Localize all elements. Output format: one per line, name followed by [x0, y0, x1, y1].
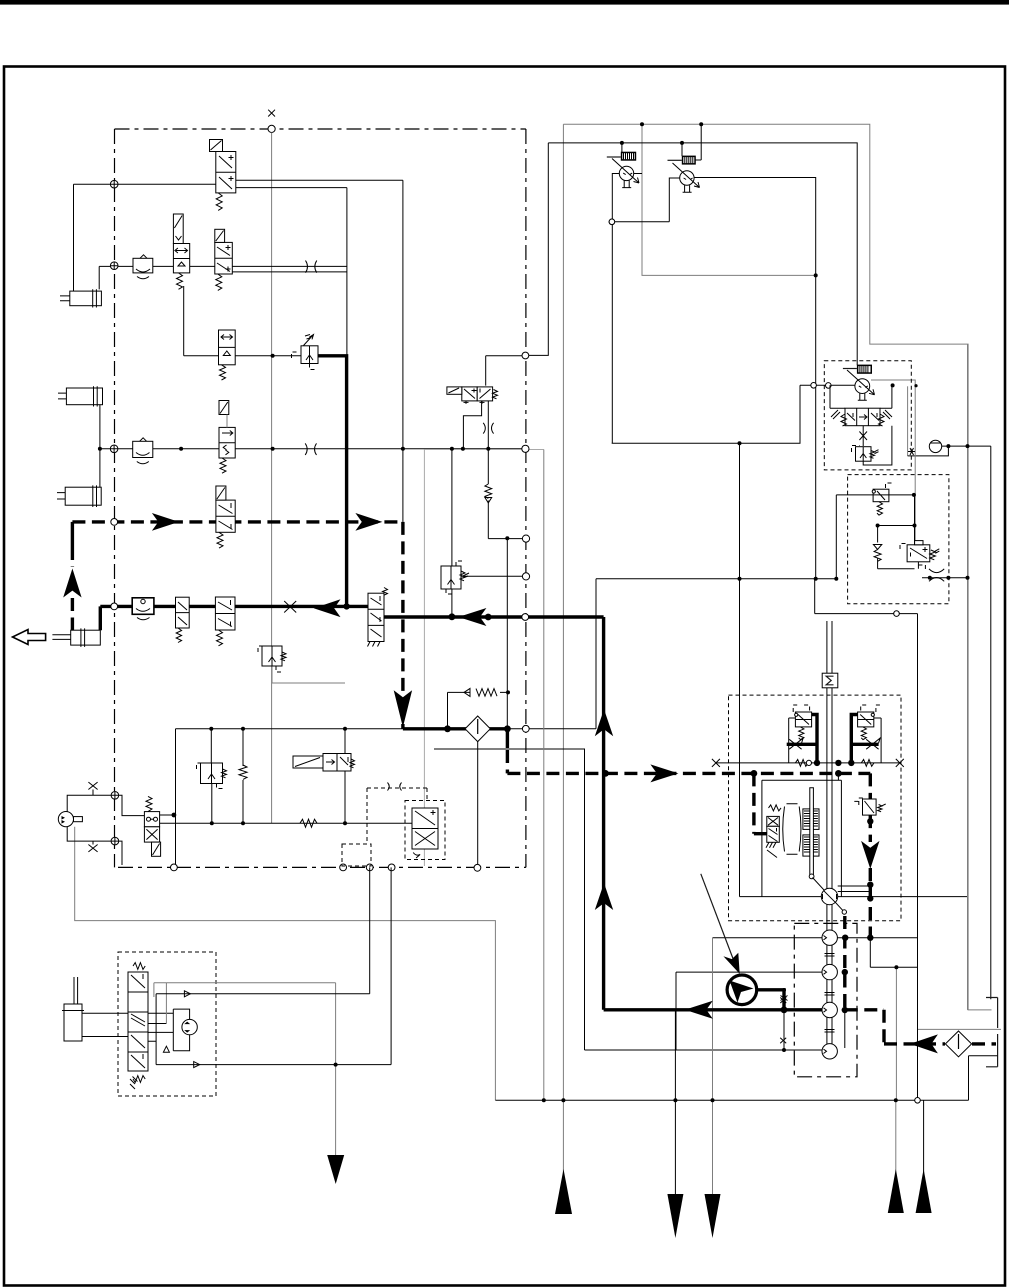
cylinder 4 (brake) [52, 628, 100, 647]
wire: riser x347 [346, 188, 348, 356]
relief module left [789, 705, 811, 766]
arrow up suction 2 [595, 883, 613, 910]
cylinder 3 [57, 485, 101, 507]
wire: sigma shaft (double) [827, 621, 832, 1044]
wire: check to filter riser [506, 538, 508, 729]
valve row6 A [176, 597, 190, 642]
thick main pressure line row6 [100, 606, 603, 630]
wire: compensator block links [836, 495, 967, 579]
wire gray: long vertical from pilot line [271, 133, 273, 824]
feedback pump circle [173, 1009, 197, 1051]
wire: gauge drop to tank bracket [990, 446, 992, 999]
wire gray: tailgate line y1029 [918, 1028, 1001, 1030]
shaft couplings [825, 954, 835, 1033]
ring pump1 port [609, 219, 615, 225]
wire: ver valve to ring [461, 575, 522, 577]
pressure reducing valve row3 [292, 335, 319, 370]
arrow up x895 [888, 1100, 904, 1213]
wire: right drain y613.6 [815, 579, 918, 1101]
wire: cyl2-cyl3 riser [99, 405, 101, 488]
junction plus-circles on pilot boundary [110, 180, 118, 845]
flow control valve row2 [173, 214, 189, 289]
block output wires [166, 982, 335, 984]
valve V2 row2 [215, 229, 233, 290]
wire: cyl1 riser [74, 184, 100, 291]
relief valve (y763 small) [197, 763, 227, 789]
pressure gauge [929, 440, 941, 452]
thick-dashed stack bus x844.8 [843, 916, 846, 1010]
wire: bottom tank stub [969, 1055, 998, 1057]
wire: pump stack port lines [676, 938, 918, 1050]
tank port ticks [986, 998, 998, 1067]
pilot pump 1 [607, 152, 639, 188]
check box row2 [133, 255, 153, 279]
restrictor row4 [305, 443, 316, 455]
regulator dashed box [824, 361, 911, 470]
bevel gear joint [821, 888, 837, 904]
hydraulic motor (left) [58, 782, 144, 865]
bowtie restrictor row6 [284, 601, 296, 613]
wire: filter drain leg [477, 741, 479, 864]
relief pair thin loops [789, 718, 881, 763]
check valve below 4/2 valve [485, 484, 492, 503]
cylinder 1 [60, 289, 101, 307]
arrow up x923 [916, 1100, 932, 1213]
bypass check with spring [464, 688, 497, 696]
inline spring x243 [239, 765, 247, 779]
wire: row3 line [184, 286, 301, 356]
wire gray: pump3 control line to compensator [871, 380, 915, 541]
feedback X restrictor [859, 426, 867, 446]
arrow up thick-dash left [63, 569, 81, 598]
arrow up x563 [555, 1169, 572, 1214]
thick compensator header [403, 724, 508, 748]
wire gray: left pump drain to bottom header [75, 827, 496, 1101]
plugged port marks on thick riser [781, 996, 788, 1001]
wire: thin return header y728.8 [176, 728, 597, 730]
thick junction dots [343, 603, 873, 1052]
compensator valve B [900, 541, 939, 570]
wire: solenoid feeds [622, 124, 701, 160]
cylinder 2 [58, 386, 103, 406]
wire: pump1 right port stub [634, 173, 642, 175]
wire: bottom header y1100 [495, 1056, 968, 1101]
plugged port x [908, 448, 915, 455]
wire: row4 line [99, 448, 522, 450]
charge pump (thick circle) [727, 975, 757, 1005]
title bar [0, 0, 1009, 5]
wire: 4-2 valve drop left [463, 401, 481, 449]
relief valve (y650) [258, 646, 286, 672]
wire: horizontal to pump3 inlet [612, 385, 855, 443]
feedback rod [809, 788, 846, 914]
rings on dash-dot right boundary [522, 352, 530, 732]
arrow right row5 b [355, 513, 382, 531]
servo piston (hatched) [803, 809, 819, 856]
wire: sub risers below y728.8 [176, 729, 346, 866]
brake shuttle box row6 (thick) [132, 598, 154, 620]
big dashed box [729, 695, 902, 921]
wire: pump1/pump2 port bus [612, 221, 669, 223]
plugged test ports [780, 998, 786, 1051]
wire gray: vertical drain to bottom arrow [562, 124, 564, 1213]
wire gray: long return x967 [967, 344, 969, 1010]
solenoid valve 3/2 (y760) [293, 754, 355, 772]
wire: valve top to ring line [486, 356, 522, 386]
traction cylinder [62, 977, 128, 1041]
wire: drain header y579 [596, 579, 836, 729]
rings at pump3 inlet line [811, 383, 817, 389]
wire: ver valve risers [451, 449, 453, 615]
wire gray: relief drain [272, 666, 345, 683]
wire: row1 feed [74, 180, 403, 187]
wire: filter bypass check [448, 692, 508, 728]
wire: long pilot line y823 [160, 815, 412, 823]
link from bevel to bus [838, 886, 871, 892]
valve row6 B [215, 597, 235, 646]
wire gray: stack line1 drop [712, 938, 714, 1101]
arrow down x712 [705, 1100, 721, 1238]
inline spring y823 [300, 819, 317, 827]
arrow down x403 [394, 690, 412, 727]
wire: big loop left edge / bottom [740, 443, 968, 896]
swash control 3-pos valve [830, 385, 892, 426]
dash-dot boundary: pilot/control region box (left block) [115, 129, 526, 867]
arrow right row5 a [152, 513, 179, 531]
relief A [872, 483, 893, 515]
sigma summation box [822, 673, 838, 688]
valve V1 row1 [210, 140, 236, 211]
arrow right LS [650, 764, 678, 782]
pointer arrow (callout) to pump [701, 874, 735, 965]
pilot operated valve (x425) [405, 801, 445, 860]
arrow up suction 1 [595, 709, 613, 736]
thick-dashed branch to swash actuator [752, 773, 755, 833]
wire gray: top-right supply line [563, 124, 991, 1010]
stub links valve-pump [148, 1013, 173, 1041]
pilot relief valve (x870) [854, 794, 885, 815]
check box row4 [133, 438, 153, 464]
node marker X at top center [268, 110, 275, 133]
thick riser from reducing valve [318, 356, 347, 607]
filter (diamond) [465, 716, 490, 742]
thick-dashed case drain to filter [845, 1010, 996, 1044]
LS bus y762.9 with end crosses [716, 762, 900, 764]
valve V4 row4 [219, 401, 235, 474]
arrow left on row6 right part [458, 608, 486, 626]
thick suction bottom run [604, 1008, 822, 1011]
wire gray: drop x896 [895, 967, 897, 1100]
relief pair thick piping [787, 715, 817, 763]
wire: pump2 left port [669, 178, 679, 222]
thick-dashed left drop to cyl4 [71, 522, 74, 547]
valve V5 row5 [216, 486, 235, 548]
wire: riser x403 [402, 180, 404, 522]
wire gray: pump1 case drain loop [642, 124, 816, 275]
check + spring branch [873, 545, 881, 562]
thick suction downcomer [602, 617, 605, 1010]
wire: pump3 outlet to gauge [907, 386, 909, 456]
restrictor above check [483, 423, 493, 434]
inner mechanism frame [762, 780, 842, 896]
arrow left on row6 [314, 599, 341, 617]
ring at drain junctions [894, 611, 900, 617]
wire: vertical link valve row1 to sigma region [529, 143, 548, 356]
thick-dashed drop x403 [401, 522, 404, 692]
ver pressure valve (x451) [441, 561, 469, 594]
restrictor row2 [306, 261, 317, 273]
wire: gray box around mid valves [424, 450, 543, 867]
filter/valve assembly (x152) [144, 796, 160, 856]
pilot pump 2 [668, 156, 700, 193]
valve V3 row3 [219, 330, 236, 380]
thick-dashed pilot drop x870 [869, 815, 872, 938]
rings on bottom dash-dot [171, 864, 481, 871]
main pump 3 (variable) [843, 365, 875, 401]
relief module right [858, 705, 883, 766]
wire: row2 line [99, 266, 347, 272]
small dashed pilot box bottom [342, 783, 427, 867]
arrow down (traction) [327, 1155, 344, 1184]
wire: 4-2 valve drop right w/ check [488, 401, 522, 539]
main control valve (6 port) [368, 588, 388, 647]
thick-dashed pilot row5 [72, 520, 403, 523]
wire: drain leg x584.5 [434, 749, 822, 1050]
inner sigma block connection [837, 773, 839, 780]
wire: black top-right line to pump3 solenoid [548, 143, 857, 365]
arrow down pilot x870 [861, 841, 879, 869]
traction valve stack [128, 963, 148, 1089]
thick-dashed LS line y773.4 [507, 750, 870, 799]
wire: x870 link [870, 938, 917, 968]
swash valve stack [766, 805, 781, 858]
arrow left drain to filter [910, 1034, 938, 1053]
arrow down x675 [667, 1010, 683, 1238]
wire: pump1 left port [612, 174, 620, 444]
cradle arcs [783, 804, 801, 854]
manual 4/2 valve (x475) [447, 387, 498, 404]
thick pump outlet [757, 990, 784, 1010]
regulator relief valve [852, 426, 892, 465]
mode arrow (outline, pointing left) [13, 630, 46, 645]
arrow left suction bottom [685, 1001, 713, 1019]
check flow markers [163, 991, 199, 1068]
restrictor arcs [929, 569, 944, 581]
wire: pump2 right port long drop [694, 178, 816, 579]
